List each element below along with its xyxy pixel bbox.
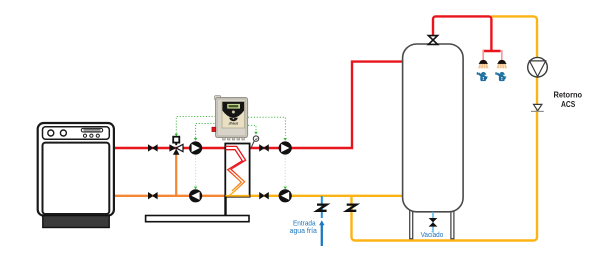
- tap figure right: [495, 72, 506, 81]
- valve recirculation line: [347, 205, 357, 211]
- tap branch left shower head: [478, 60, 489, 68]
- tap figure left: [477, 72, 488, 81]
- check valve: [531, 104, 544, 111]
- three-way mixing valve: [169, 137, 183, 155]
- wire red secondary exchanger to tank: [249, 62, 404, 148]
- control wire right pump pair: [284, 156, 287, 190]
- svg-text:agua fría: agua fría: [290, 226, 317, 235]
- control wire to three-way valve: [175, 117, 216, 137]
- wire pink tap drop right: [501, 50, 503, 60]
- control wire to left pump: [194, 124, 216, 141]
- storage tank: [403, 44, 464, 239]
- wire orange return exchanger to boiler: [113, 195, 226, 197]
- svg-text:ACS: ACS: [561, 99, 576, 109]
- control wire to right pump: [248, 117, 287, 141]
- wire red supply boiler to exchanger: [113, 147, 226, 149]
- wire yellow recirculation loop: [352, 16, 538, 240]
- pump P1 red line left: [189, 141, 202, 154]
- valve cold water inlet: [317, 205, 327, 211]
- wire red taps header: [483, 50, 501, 52]
- control wire left pump pair: [194, 156, 197, 190]
- svg-text:Vaciado: Vaciado: [421, 232, 444, 239]
- label Vaciado: [421, 232, 444, 239]
- wire yellow cold feed tank to exchanger: [249, 195, 404, 197]
- cold water inlet arrow: [319, 220, 324, 246]
- wire pink tap drop left: [482, 50, 484, 60]
- tank drain pipe: [432, 212, 434, 233]
- drain valve Vaciado: [429, 218, 438, 227]
- exchanger stand: [146, 197, 249, 222]
- svg-text:Retorno: Retorno: [554, 89, 583, 99]
- label Entrada agua fria: [290, 219, 317, 236]
- temperature sensor: [251, 136, 258, 147]
- recirculation pump: [528, 57, 548, 77]
- wire orange bypass three-way valve: [175, 152, 177, 196]
- tap branch right shower head: [497, 60, 508, 68]
- control wire to sensor: [248, 125, 258, 134]
- valve V3 orange line left: [148, 192, 158, 199]
- label Retorno ACS: [554, 89, 583, 109]
- wire blue cold water inlet stub: [321, 196, 323, 218]
- controller U1: [212, 96, 248, 140]
- tank top valve: [428, 36, 437, 45]
- boiler: [38, 123, 114, 228]
- valve V4 yellow line right: [259, 192, 269, 199]
- pump P4 yellow line right: [279, 189, 292, 202]
- svg-text:Jhaus: Jhaus: [228, 122, 238, 126]
- pump P2 red line right: [279, 141, 292, 154]
- pump P3 orange line left: [189, 189, 202, 202]
- valve V1 red line left: [148, 144, 158, 151]
- wire red tank top to taps junction: [433, 16, 491, 51]
- valve V2 red line right: [259, 144, 269, 151]
- heat exchanger: [225, 144, 249, 197]
